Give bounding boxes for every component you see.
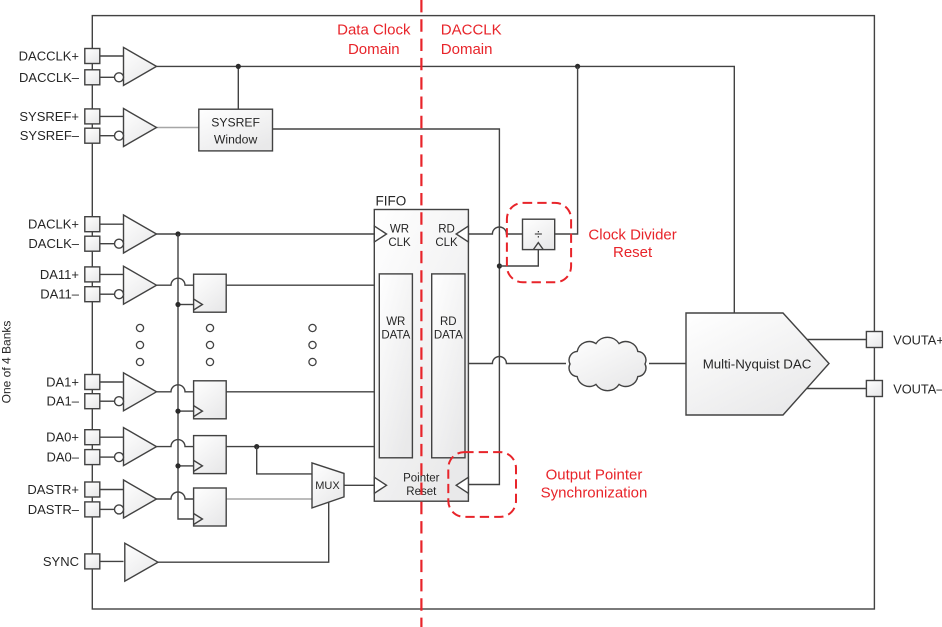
block SYSREF Window — [199, 109, 273, 151]
wire DA0 branch to MUX input — [257, 447, 312, 474]
svg-text:Window: Window — [214, 133, 258, 147]
svg-text:Domain: Domain — [348, 41, 400, 58]
wire DA1 buffer to flipflop with hop — [157, 385, 194, 392]
svg-text:RD: RD — [440, 316, 457, 328]
svg-text:VOUTA+: VOUTA+ — [893, 332, 942, 347]
svg-text:DACCLK: DACCLK — [441, 21, 502, 38]
wire DASTR buffer to flipflop with hop — [157, 492, 194, 499]
svg-text:DA11+: DA11+ — [40, 267, 79, 282]
block FIFO outer — [374, 194, 468, 502]
wire SYSREF window top connection — [237, 66, 239, 109]
svg-text:÷: ÷ — [534, 227, 542, 243]
wire DA1 flipflop to FIFO — [226, 391, 374, 393]
svg-text:DA0–: DA0– — [46, 450, 79, 465]
label SYSREF+ — [19, 109, 79, 124]
pin Pointer Reset right marker — [456, 477, 468, 493]
flipflop FF0 DA0 latch — [194, 436, 227, 474]
node junction on sync riser at divider clock branch — [497, 263, 502, 268]
mux MUX1 pointer source select — [312, 463, 344, 508]
label DACLK- — [28, 236, 79, 251]
svg-text:MUX: MUX — [315, 480, 340, 492]
pin DA1+ — [85, 375, 124, 390]
pin SYSREF+ — [85, 109, 124, 124]
wire MUX output to FIFO pointer reset — [344, 484, 374, 486]
buffer U4 DA11 receiver — [115, 266, 157, 304]
label One of 4 Banks — [0, 321, 14, 404]
node junction clock line DA1 — [175, 409, 180, 414]
pin DA11+ — [85, 267, 124, 282]
label Output Pointer Synchronization — [541, 467, 648, 502]
wire divider clock input branch — [499, 250, 538, 266]
label SYNC — [43, 554, 79, 569]
flipflop FFS DASTR latch — [194, 488, 227, 526]
node bank repetition dots column 1 — [136, 324, 143, 365]
pin SYNC — [85, 554, 124, 569]
svg-text:WR: WR — [386, 316, 405, 328]
block RD DATA column — [432, 274, 465, 458]
svg-text:DACCLK–: DACCLK– — [19, 70, 80, 85]
svg-text:RD: RD — [438, 224, 455, 236]
label DACCLK Domain — [441, 21, 502, 58]
svg-text:DA0+: DA0+ — [46, 430, 79, 445]
wire cloud to Multi-Nyquist DAC — [649, 363, 686, 365]
wire DA0 flipflop clock stub — [178, 465, 194, 467]
pin RD CLK input marker — [435, 224, 468, 249]
buffer U6 DA0 receiver — [115, 428, 157, 466]
svg-text:DA11–: DA11– — [40, 287, 80, 302]
cloud analog interpolation — [569, 337, 646, 390]
node junction on DACCLK line at divider riser — [575, 64, 580, 69]
label DACLK+ — [28, 217, 79, 232]
wire DA0 flipflop to FIFO — [226, 446, 374, 448]
buffer U8 SYNC receiver — [125, 543, 158, 581]
wire SYSREF window output to pointer-sync riser — [273, 129, 500, 485]
node red dashed box output pointer synchronization — [448, 452, 516, 517]
node junction DACLK to clock distribution line — [175, 231, 180, 236]
wire clock distribution line — [178, 234, 194, 519]
label DA1+ — [46, 375, 79, 390]
pin DA11- — [85, 287, 115, 302]
block WR DATA column — [379, 274, 412, 458]
wire RD CLK to divider with hop — [468, 227, 522, 234]
svg-text:DASTR–: DASTR– — [28, 502, 80, 517]
node bank repetition dots column 3 — [309, 324, 316, 365]
label Data Clock Domain — [337, 21, 411, 58]
pin Pointer Reset left marker — [374, 477, 386, 493]
svg-text:SYSREF: SYSREF — [211, 116, 260, 130]
divider U9 clock divider — [523, 219, 555, 249]
pin DACLK+ — [85, 217, 124, 232]
svg-text:Clock Divider: Clock Divider — [588, 226, 676, 243]
label DA0- — [46, 450, 79, 465]
svg-text:Output Pointer: Output Pointer — [546, 467, 643, 484]
flipflop FF1 DA1 latch — [194, 381, 227, 419]
node red dashed box clock divider reset — [507, 203, 571, 282]
label SYSREF- — [20, 128, 80, 143]
wire DAC output to VOUTA+ — [807, 339, 866, 341]
label DASTR- — [28, 502, 80, 517]
node junction clock line DA0 — [175, 463, 180, 468]
svg-text:CLK: CLK — [388, 237, 411, 249]
label DA11- — [40, 287, 80, 302]
wire red dashed clock domain divider line — [420, 0, 422, 627]
svg-text:WR: WR — [390, 224, 409, 236]
svg-text:Synchronization: Synchronization — [541, 485, 648, 502]
wire divider output riser — [555, 66, 578, 234]
svg-text:One of 4 Banks: One of 4 Banks — [0, 321, 14, 404]
label VOUTA- — [893, 381, 942, 396]
pin VOUTA+ — [866, 332, 882, 348]
buffer U1 DACCLK receiver — [115, 47, 157, 85]
svg-text:DA1–: DA1– — [46, 394, 79, 409]
svg-text:DACLK–: DACLK– — [28, 236, 79, 251]
pin WR CLK input marker — [374, 224, 411, 249]
wire SYSREF buffer to window (gray) — [157, 127, 199, 129]
svg-text:FIFO: FIFO — [376, 194, 407, 209]
svg-text:Data Clock: Data Clock — [337, 21, 411, 38]
svg-text:SYSREF+: SYSREF+ — [19, 109, 79, 124]
svg-text:DASTR+: DASTR+ — [27, 482, 79, 497]
node junction clock line DA11 — [175, 302, 180, 307]
wire DA11 flipflop clock stub — [178, 304, 194, 306]
block Multi-Nyquist DAC — [686, 313, 829, 415]
svg-text:Domain: Domain — [441, 41, 493, 58]
svg-text:DATA: DATA — [381, 330, 410, 342]
pin DACCLK+ — [85, 49, 124, 64]
pin SYSREF- — [85, 128, 115, 143]
wire DACCLK buffered clock net — [157, 66, 735, 313]
buffer U5 DA1 receiver — [115, 373, 157, 411]
svg-text:Multi-Nyquist DAC: Multi-Nyquist DAC — [703, 356, 812, 371]
pin DA1- — [85, 394, 115, 409]
pin DASTR- — [85, 502, 115, 517]
label DA11+ — [40, 267, 79, 282]
pin VOUTA- — [866, 381, 882, 397]
svg-text:Reset: Reset — [613, 244, 653, 261]
label Clock Divider Reset — [588, 226, 676, 261]
label DA0+ — [46, 430, 79, 445]
buffer U2 SYSREF receiver — [115, 109, 157, 147]
pin DA0- — [85, 450, 115, 465]
svg-text:SYNC: SYNC — [43, 554, 79, 569]
label DACCLK- — [19, 70, 80, 85]
node junction on DACCLK line at SYSREF window — [236, 64, 241, 69]
pin DACCLK- — [85, 70, 115, 85]
wire SYNC buffer to MUX bottom — [158, 502, 329, 562]
pin DASTR+ — [85, 482, 124, 497]
buffer U7 DASTR receiver — [115, 480, 157, 518]
wire DA11 flipflop to FIFO — [226, 284, 374, 286]
label DASTR+ — [27, 482, 79, 497]
svg-text:DATA: DATA — [434, 330, 463, 342]
svg-text:SYSREF–: SYSREF– — [20, 128, 80, 143]
wire DA1 flipflop clock stub — [178, 410, 194, 412]
outer boundary box — [92, 16, 874, 609]
flipflop FF11 DA11 latch — [194, 274, 227, 312]
wire DACLK buffer output to FIFO WR CLK — [157, 233, 375, 235]
label DA1- — [46, 394, 79, 409]
wire DAC output to VOUTA- — [807, 388, 867, 390]
svg-text:CLK: CLK — [435, 237, 458, 249]
wire DASTR flipflop to MUX (gray) — [226, 498, 312, 500]
svg-text:VOUTA–: VOUTA– — [893, 381, 942, 396]
wire DA11 buffer to flipflop with hop — [157, 278, 194, 285]
node bank repetition dots column 2 — [206, 324, 213, 365]
svg-text:DACCLK+: DACCLK+ — [19, 49, 79, 64]
svg-text:DA1+: DA1+ — [46, 375, 79, 390]
wire DA0 buffer to flipflop with hop — [157, 440, 194, 447]
label VOUTA+ — [893, 332, 942, 347]
wire RD DATA to cloud with hop — [468, 357, 566, 364]
label DACCLK+ — [19, 49, 79, 64]
pin DA0+ — [85, 430, 124, 445]
buffer U3 DACLK receiver — [115, 215, 157, 253]
node junction DA0 output to MUX branch — [254, 444, 259, 449]
label Pointer Reset — [403, 472, 440, 498]
svg-text:DACLK+: DACLK+ — [28, 217, 79, 232]
pin DACLK- — [85, 236, 115, 251]
